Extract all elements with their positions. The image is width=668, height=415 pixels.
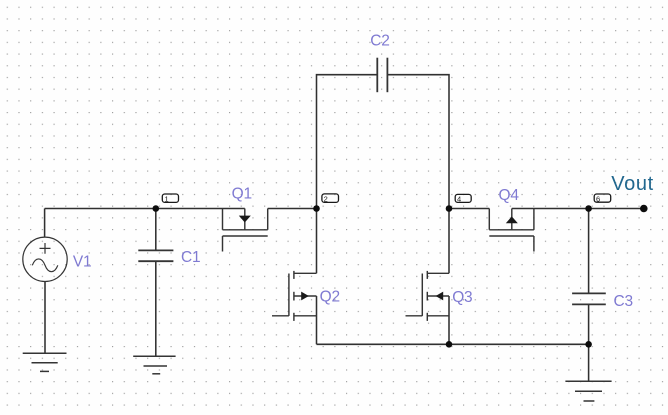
wire Q3 source down to bottom rail	[448, 296, 450, 344]
junction node 1	[153, 205, 160, 212]
wire C1 to ground	[155, 261, 157, 356]
junction node 2	[313, 205, 320, 212]
terminal Vout	[640, 205, 648, 213]
transistor Q3	[406, 271, 450, 321]
transistor Q1	[223, 209, 268, 252]
wire C2 right riser	[387, 75, 449, 209]
svg-text:Q2: Q2	[320, 288, 340, 305]
svg-text:Vout: Vout	[611, 173, 653, 195]
wire C3 to bottom rail	[588, 304, 590, 344]
svg-text:C2: C2	[370, 33, 389, 50]
wire C2 left riser	[317, 75, 378, 209]
svg-text:Q4: Q4	[499, 187, 520, 204]
net badge 4	[455, 194, 471, 203]
svg-text:6: 6	[596, 194, 600, 203]
capacitor C3	[572, 293, 606, 304]
wire node 1 down to C1	[155, 209, 157, 251]
junction node Vout	[585, 205, 592, 212]
ground (C3)	[565, 381, 611, 401]
junction bottom rail C3	[585, 341, 592, 348]
wire Q1 drain to node 2	[268, 208, 317, 210]
wire Q4 to Vout terminal	[512, 208, 644, 210]
wire Q2 source down to bottom rail	[316, 296, 318, 344]
wire bottom rail	[317, 343, 589, 345]
net badge 6	[594, 194, 611, 203]
wire node 4 down to Q3 drain	[448, 209, 450, 274]
wire bottom rail to ground	[588, 344, 590, 381]
wire node 2 down to Q2 drain	[316, 209, 318, 274]
svg-text:Q3: Q3	[452, 289, 472, 306]
svg-text:1: 1	[165, 194, 169, 203]
net badge 1	[162, 194, 178, 203]
svg-text:4: 4	[457, 195, 461, 204]
wire V1 top riser	[44, 209, 46, 238]
transistor Q4	[489, 209, 534, 252]
svg-text:C1: C1	[181, 249, 200, 266]
capacitor C1	[138, 250, 173, 261]
capacitor C2	[377, 58, 387, 92]
wire node 4 to Q4	[449, 208, 489, 210]
voltage source V1	[23, 237, 67, 281]
wire Vout node down to C3	[588, 209, 590, 294]
svg-text:C3: C3	[614, 293, 633, 310]
wire V1 bottom to ground	[44, 282, 46, 354]
ground (V1)	[23, 353, 67, 371]
svg-text:2: 2	[324, 194, 328, 203]
net badge 2	[322, 194, 339, 203]
svg-text:Q1: Q1	[232, 185, 252, 202]
ground (C1)	[133, 356, 175, 374]
svg-text:V1: V1	[73, 253, 92, 270]
junction node 4	[446, 205, 453, 212]
wire main top left	[45, 208, 245, 210]
junction bottom rail Q3	[446, 341, 453, 348]
transistor Q2	[272, 271, 317, 321]
